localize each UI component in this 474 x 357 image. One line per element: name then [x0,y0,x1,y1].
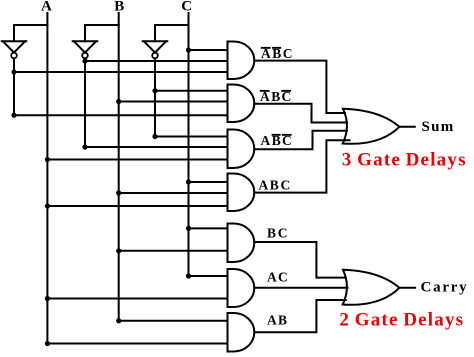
value label AC on G6 [267,270,288,285]
and-gate G1 (ABC' minterm A'B'C) [228,42,255,80]
and-gate G3 (minterm AB'C') [228,130,255,169]
value label A'BC' on G2 [260,89,291,104]
and-gate G7 (term AB) [228,313,255,352]
inverter U3 (NOT C) [143,41,168,58]
wire: G2 output to OR1 input [254,104,347,123]
and-gate G5 (term BC) [228,224,255,263]
node: B tap to G7 [116,318,121,323]
wire: NOT-C rail [154,58,156,136]
wire: NOT-A rail [13,58,15,115]
wire: C to AND G4 input [189,181,228,183]
svg-text:C: C [181,0,192,15]
inverter U2 (NOT B) [73,41,98,58]
svg-text:C: C [281,178,291,193]
svg-text:B: B [267,226,276,241]
svg-text:A: A [259,178,269,193]
wire: C to AND G6 input [189,275,228,277]
wire: C to AND G1 input [189,49,228,51]
svg-text:B: B [271,89,280,104]
wire: B to AND G4 input [119,192,228,194]
wire: B to AND G5 input [119,250,228,252]
node: C tap to G1 [186,47,191,52]
node: C tap to G6 [186,273,191,278]
value label A'B'C on G1 [261,46,293,61]
node: NOT-B tap to G3 [82,144,87,149]
wire: A to AND G4 input [47,205,227,207]
node: B tap to G4 [116,190,121,195]
wire: NOT-C to AND G2 input [155,90,228,92]
wire: NOT-B to AND G1 input [85,60,228,62]
wire: A to AND G3 input [47,159,227,161]
node: NOT-B tap to G1 [82,58,87,63]
wire: G7 output to OR2 input [256,300,346,332]
svg-text:A: A [267,313,277,328]
wire: OR1 output to Sum [399,126,414,128]
svg-text:Sum: Sum [422,119,455,135]
node: A tap to G6 [45,296,50,301]
wire: NOT-A to AND G2 input [14,114,228,116]
wire: NOT-A to AND G1 input [14,71,228,73]
node: NOT-C tap to G3 [152,134,157,139]
svg-text:3 Gate Delays: 3 Gate Delays [342,150,467,171]
inverter U1 (NOT A) [2,41,27,58]
value label AB'C' on G3 [261,133,292,148]
wire: G3 output to OR1 input [254,131,347,150]
value label AB on G7 [267,313,287,328]
wire: G5 output to OR2 input [254,242,345,278]
svg-text:A: A [261,133,271,148]
wire: G1 output to OR1 input [254,61,344,113]
value label BC on G5 [267,226,288,241]
wire: G6 output to OR2 input [256,287,348,289]
node: B tap to G2 [116,99,121,104]
wire: C branch to inverter U3 [155,25,189,41]
wire: input rail B [118,13,120,321]
node: NOT-A tap to G1 [11,69,16,74]
or-gate OR1 (Sum) [343,109,400,144]
wire: NOT-B rail [84,58,86,147]
wire: input rail A [46,13,48,344]
node: A tap to G7 [45,341,50,346]
node: A tap to G3 [45,157,50,162]
wire: C to AND G5 input [189,227,228,229]
node: C tap to G4 [186,179,191,184]
or-gate OR2 (Carry) [343,270,400,305]
wire: NOT-B to AND G3 input [85,146,228,148]
wire: B to AND G7 input [119,320,228,322]
node: NOT-C tap to G2 [152,88,157,93]
svg-text:C: C [278,226,288,241]
wire: OR2 output to Carry [399,287,415,289]
wire: B to AND G2 input [119,101,228,103]
wire: NOT-C to AND G3 input [155,136,228,138]
svg-text:2 Gate Delays: 2 Gate Delays [339,310,464,331]
and-gate G6 (term AC) [228,269,255,307]
svg-text:B: B [114,0,124,15]
svg-text:Carry: Carry [421,279,469,295]
wire: A to AND G6 input [47,298,227,300]
svg-text:C: C [278,270,288,285]
wire: input rail C [188,13,190,276]
wire: A to AND G7 input [47,343,227,345]
node: C tap to G5 [186,226,191,231]
value label ABC on G4 [259,178,291,193]
svg-text:A: A [267,270,277,285]
node: NOT-A tap to G2 [11,113,16,118]
and-gate G2 (minterm A'BC') [228,85,255,123]
svg-text:C: C [283,46,293,61]
node: B tap to G5 [116,248,121,253]
wire: G4 output to OR1 input [254,140,349,192]
svg-text:B: B [278,313,287,328]
wire: B branch to inverter U2 [85,25,119,41]
wire: A branch to inverter U1 [14,25,47,41]
svg-text:B: B [270,178,279,193]
node: A tap to G4 [45,203,50,208]
svg-text:A: A [41,0,52,15]
and-gate G4 (minterm ABC) [228,174,255,212]
